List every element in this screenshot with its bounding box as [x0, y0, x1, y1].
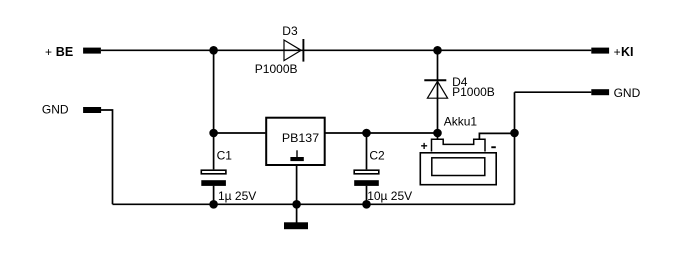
node rail at regulator column: [292, 200, 301, 209]
diode D4 cathode bar: [424, 79, 446, 81]
ground symbol: [284, 222, 308, 229]
diode D3 triangle: [284, 40, 301, 61]
node mid at C2 column: [362, 129, 371, 138]
battery Akku1 inner cell rect: [432, 158, 485, 176]
terminal pad +KI: [591, 48, 609, 54]
diode D3 cathode bar: [302, 39, 304, 62]
svg-text:+: +: [45, 45, 52, 59]
wire right rail (GND down right side): [514, 92, 516, 204]
wire PB137 ground pin to rail and ground symbol: [296, 166, 298, 223]
capacitor C2 bottom plate: [354, 180, 379, 186]
label +KI: [614, 45, 634, 59]
node top at C1 column: [209, 46, 218, 55]
svg-text:Akku1: Akku1: [444, 115, 478, 129]
wire battery minus post to right rail: [479, 133, 514, 139]
node rail at C2 column: [362, 200, 371, 209]
wire D4 column (top node through D4 to battery plus post): [437, 50, 439, 139]
node top at D4 column: [433, 46, 442, 55]
wire C1 column (top net down through C1 to rail): [213, 50, 215, 204]
svg-text:BE: BE: [56, 45, 73, 59]
node battery minus / right rail: [510, 129, 519, 138]
capacitor C1 bottom plate: [201, 180, 226, 186]
node rail at C1 column: [209, 200, 218, 209]
svg-text:C2: C2: [369, 149, 385, 163]
label battery minus: [491, 146, 496, 148]
node mid at C1 column: [209, 129, 218, 138]
wire bottom ground rail: [113, 203, 515, 205]
wire PB137 output to battery plus node: [326, 132, 438, 134]
wire right GND terminal: [515, 91, 592, 93]
regulator ground tab bar: [290, 157, 303, 161]
capacitor C2 top plate: [354, 170, 379, 174]
svg-text:PB137: PB137: [282, 131, 319, 145]
svg-text:C1: C1: [217, 149, 233, 163]
regulator ground tab stem: [296, 150, 298, 157]
wire C2 column: [366, 133, 368, 204]
terminal pad GND left: [83, 107, 101, 113]
wire mid net node to PB137 input: [214, 132, 266, 134]
svg-text:+: +: [421, 139, 428, 153]
svg-text:P1000B: P1000B: [255, 62, 298, 76]
svg-text:10µ 25V: 10µ 25V: [367, 189, 412, 203]
svg-text:1µ 25V: 1µ 25V: [218, 189, 256, 203]
svg-text:KI: KI: [621, 45, 634, 59]
regulator U1 PB137 box: [266, 118, 325, 165]
capacitor C1 top plate: [201, 170, 226, 174]
svg-text:GND: GND: [42, 103, 69, 117]
wire left GND terminal down to bottom rail: [101, 110, 113, 204]
wire top net +BE to +KI: [101, 49, 591, 51]
battery Akku1 outer body: [420, 153, 496, 185]
label +BE: [45, 45, 73, 59]
svg-text:+: +: [614, 45, 621, 59]
svg-text:GND: GND: [614, 86, 641, 100]
terminal pad +BE: [83, 48, 101, 54]
svg-text:P1000B: P1000B: [452, 85, 495, 99]
diode D4 triangle: [427, 81, 447, 98]
svg-text:D3: D3: [282, 24, 298, 38]
battery Akku1 terminal posts profile: [432, 139, 486, 151]
terminal pad GND right: [591, 89, 609, 95]
node battery plus: [433, 129, 442, 138]
